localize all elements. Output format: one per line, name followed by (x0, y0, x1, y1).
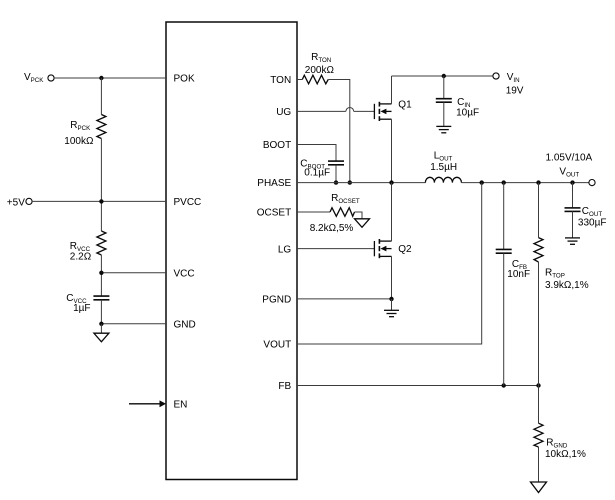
wire RTON to corner (328, 80, 350, 183)
wire PGND rail (297, 298, 392, 300)
wire VCC (101, 272, 166, 274)
transistor Q2 (374, 239, 412, 258)
terminal VPCK (24, 72, 54, 84)
svg-text:VCC: VCC (174, 269, 195, 280)
capacitor COUT (565, 183, 607, 238)
node CBOOT-PHASE junction (334, 180, 338, 184)
capacitor CIN (436, 76, 479, 126)
resistor RPCK (64, 115, 106, 147)
node CIN junction (442, 74, 446, 78)
wire Q1 source down (391, 119, 393, 182)
wire PHASE rail (297, 182, 425, 184)
ground earth PGND (384, 299, 399, 317)
node CFB riser junction (502, 180, 506, 184)
node RTOP riser junction (536, 180, 540, 184)
svg-text:8.2kΩ,5%: 8.2kΩ,5% (310, 223, 354, 234)
EN input arrow (129, 400, 166, 407)
wire RVCC to VCC (100, 255, 102, 296)
node VCC junction (99, 271, 103, 275)
svg-text:19V: 19V (506, 85, 524, 96)
wire Q1 drain up (391, 76, 393, 104)
IC U1 body (166, 22, 297, 480)
svg-text:UG: UG (276, 107, 291, 118)
wire OCSET stub (297, 211, 330, 213)
resistor RVCC (70, 231, 106, 262)
svg-text:LG: LG (278, 244, 292, 255)
svg-text:FB: FB (278, 381, 291, 392)
terminal VOUT (546, 153, 596, 186)
svg-text:EN: EN (174, 400, 188, 411)
wire CVCC to GND (100, 300, 102, 324)
node RTON-PHASE junction (348, 180, 352, 184)
wire Q2 drain up (391, 183, 393, 242)
wire FB rail (297, 385, 539, 387)
terminal +5V (7, 198, 32, 209)
wire VIN rail (392, 75, 494, 77)
node COUT junction (570, 180, 574, 184)
node GND junction (99, 322, 103, 326)
inductor LOUT (425, 151, 461, 183)
svg-text:10µF: 10µF (456, 107, 479, 118)
svg-text:POK: POK (174, 74, 195, 85)
wire TON stub (297, 79, 302, 81)
wire CBOOT to PHASE (335, 165, 337, 183)
svg-text:1.5µH: 1.5µH (430, 162, 457, 173)
svg-text:PHASE: PHASE (257, 178, 291, 189)
wire GND stub (100, 324, 102, 333)
node PGND junction (389, 297, 393, 301)
svg-text:10nF: 10nF (507, 269, 530, 280)
wire LG (297, 248, 374, 250)
capacitor CVCC (66, 293, 109, 314)
svg-text:OCSET: OCSET (257, 208, 291, 219)
node RTOP-FB junction (536, 383, 540, 387)
wire Q2 source down (391, 256, 393, 299)
capacitor CBOOT (300, 158, 344, 178)
node PVCC junction (99, 199, 103, 203)
wire PVCC (32, 200, 166, 202)
resistor RTOP (534, 183, 589, 386)
node POK junction (99, 76, 103, 80)
ground triangle left (94, 333, 109, 342)
ground triangle RGND (531, 482, 547, 493)
svg-text:3.9kΩ,1%: 3.9kΩ,1% (545, 280, 589, 291)
svg-text:0.1µF: 0.1µF (304, 167, 330, 178)
resistor RGND (534, 386, 586, 483)
svg-text:1.05V/10A: 1.05V/10A (546, 153, 593, 164)
svg-text:VOUT: VOUT (263, 340, 291, 351)
node Q1-Q2 PHASE junction (389, 180, 393, 184)
svg-text:2.2Ω: 2.2Ω (70, 251, 92, 262)
svg-text:1µF: 1µF (73, 303, 90, 314)
wire VOUT pin riser (297, 183, 482, 344)
ground earth CIN (436, 126, 451, 132)
ground earth COUT (565, 238, 580, 244)
svg-text:GND: GND (174, 319, 196, 330)
svg-text:100kΩ: 100kΩ (64, 136, 94, 147)
svg-text:Q1: Q1 (398, 100, 412, 111)
wire POK (54, 77, 166, 79)
wire RPCK to PVCC (100, 139, 102, 232)
wire ROCSET to ground (355, 212, 363, 219)
svg-text:PVCC: PVCC (174, 197, 202, 208)
svg-text:TON: TON (270, 75, 291, 86)
wire VPCK column upper (100, 78, 102, 115)
svg-text:+5V: +5V (7, 198, 25, 209)
resistor RTON (302, 52, 334, 84)
svg-text:Q2: Q2 (398, 244, 412, 255)
terminal VIN (493, 72, 524, 96)
svg-text:200kΩ: 200kΩ (305, 65, 335, 76)
ground triangle OCSET (355, 219, 370, 228)
svg-text:10kΩ,1%: 10kΩ,1% (545, 449, 586, 460)
resistor ROCSET (310, 193, 360, 234)
svg-text:BOOT: BOOT (263, 140, 291, 151)
svg-text:330µF: 330µF (578, 218, 607, 229)
transistor Q1 (374, 100, 412, 122)
wire BOOT (297, 145, 336, 161)
node CFB-FB junction (502, 383, 506, 387)
capacitor CFB (496, 183, 530, 386)
node VOUT riser junction (480, 180, 484, 184)
svg-text:PGND: PGND (262, 294, 291, 305)
wire UG with hop (297, 107, 374, 111)
wire VOUT rail (461, 182, 589, 184)
wire GND (101, 323, 166, 325)
